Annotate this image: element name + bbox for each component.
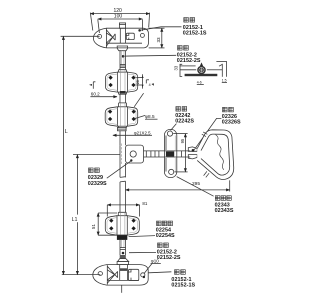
label lock-seat bottom (锁座 02152-1 02152-1S) [148, 270, 195, 289]
svg-text:02329S: 02329S [88, 181, 107, 187]
dimension 295 [126, 180, 230, 191]
label lock-head top (锁头 02152-2 02152-2S) [122, 46, 201, 64]
dimension 33 (top bracket height) [149, 28, 165, 48]
square block (方块) on rod [120, 144, 144, 165]
lock seat side (section) view [173, 61, 227, 84]
guide bracket 3 (lower hinge) [105, 212, 139, 235]
label bracket (托架 02242 02242S) [171, 107, 195, 131]
label lock-head bottom (锁头 02152-2 02152-2S) [129, 243, 181, 261]
dimension L [61, 36, 101, 274]
svg-text:95: 95 [180, 138, 185, 143]
label dia 10 [144, 259, 161, 274]
lock seat top bracket (oval plan view) [93, 28, 148, 48]
label positioning ring (定位环 02254 02254S) [129, 221, 175, 239]
svg-text:51: 51 [91, 224, 96, 229]
label dia 21x2.5 [113, 130, 152, 135]
svg-text:4: 4 [149, 83, 151, 87]
lock seat bottom bracket (oval plan view) [93, 265, 148, 293]
positioning ring (定位环) collar [117, 235, 127, 240]
svg-text:φ10: φ10 [151, 259, 159, 264]
dimension 95 (plate hole spacing) [173, 134, 187, 172]
rod below collar with coupling [120, 240, 126, 255]
label block (方块 02329 02329S) [88, 161, 131, 187]
label dia 8.5 [134, 114, 157, 119]
rod segment to block [120, 131, 126, 145]
handle arm (horizontal shaft) [144, 151, 191, 157]
label lock-seat top (锁座 02152-1 02152-1S) [141, 18, 207, 37]
dimension 100 (top) [98, 14, 143, 33]
svg-text:33: 33 [173, 65, 178, 70]
guide bracket 2 (second hinge) [105, 103, 138, 128]
lock head stub below top bracket [117, 46, 127, 51]
collar below bracket 2 [118, 127, 127, 130]
svg-text:02254S: 02254S [156, 233, 175, 239]
svg-text:02152-1S: 02152-1S [183, 30, 207, 36]
handle fork (clevis end) [188, 147, 197, 159]
mini dimension 28 / 4 (bracket1 hole spacing) [134, 74, 154, 107]
svg-text:02326S: 02326S [222, 120, 241, 126]
svg-text:L1: L1 [72, 217, 78, 223]
svg-text:02152-1S: 02152-1S [171, 283, 195, 289]
svg-text:295: 295 [192, 181, 200, 187]
svg-text:02343S: 02343S [215, 208, 234, 214]
svg-text:28: 28 [136, 80, 140, 84]
lock head flare above bottom seat [117, 255, 129, 265]
svg-text:60.2: 60.2 [91, 91, 100, 96]
rod segment top (with coupling) [120, 51, 126, 70]
dimension 51 [91, 213, 128, 235]
svg-text:02242S: 02242S [175, 119, 194, 125]
rod segment between brackets [120, 94, 126, 103]
label handle (手柄 02326 02326S) [194, 107, 241, 149]
dimension L1 [71, 155, 120, 275]
svg-text:φ8.5: φ8.5 [145, 114, 155, 119]
svg-text:81: 81 [142, 201, 147, 206]
svg-text:33: 33 [156, 37, 161, 43]
svg-text:φ21X2.5: φ21X2.5 [134, 130, 151, 135]
handle bracket plate (托架) [164, 129, 176, 177]
dimension 81 [107, 201, 148, 216]
dimension 60.2 [89, 82, 117, 97]
svg-text:02152-2S: 02152-2S [177, 58, 201, 64]
lock rod top stub [119, 23, 125, 28]
rod break symbol [120, 163, 126, 212]
label handle seat (手柄座 02343 02343S) [177, 177, 234, 215]
svg-text:L: L [65, 129, 68, 135]
svg-text:02152-2S: 02152-2S [157, 255, 181, 261]
handle loop (手柄) [197, 130, 234, 180]
guide bracket 1 (top hinge) [105, 70, 137, 95]
dimension 120 (top) [90, 8, 149, 30]
